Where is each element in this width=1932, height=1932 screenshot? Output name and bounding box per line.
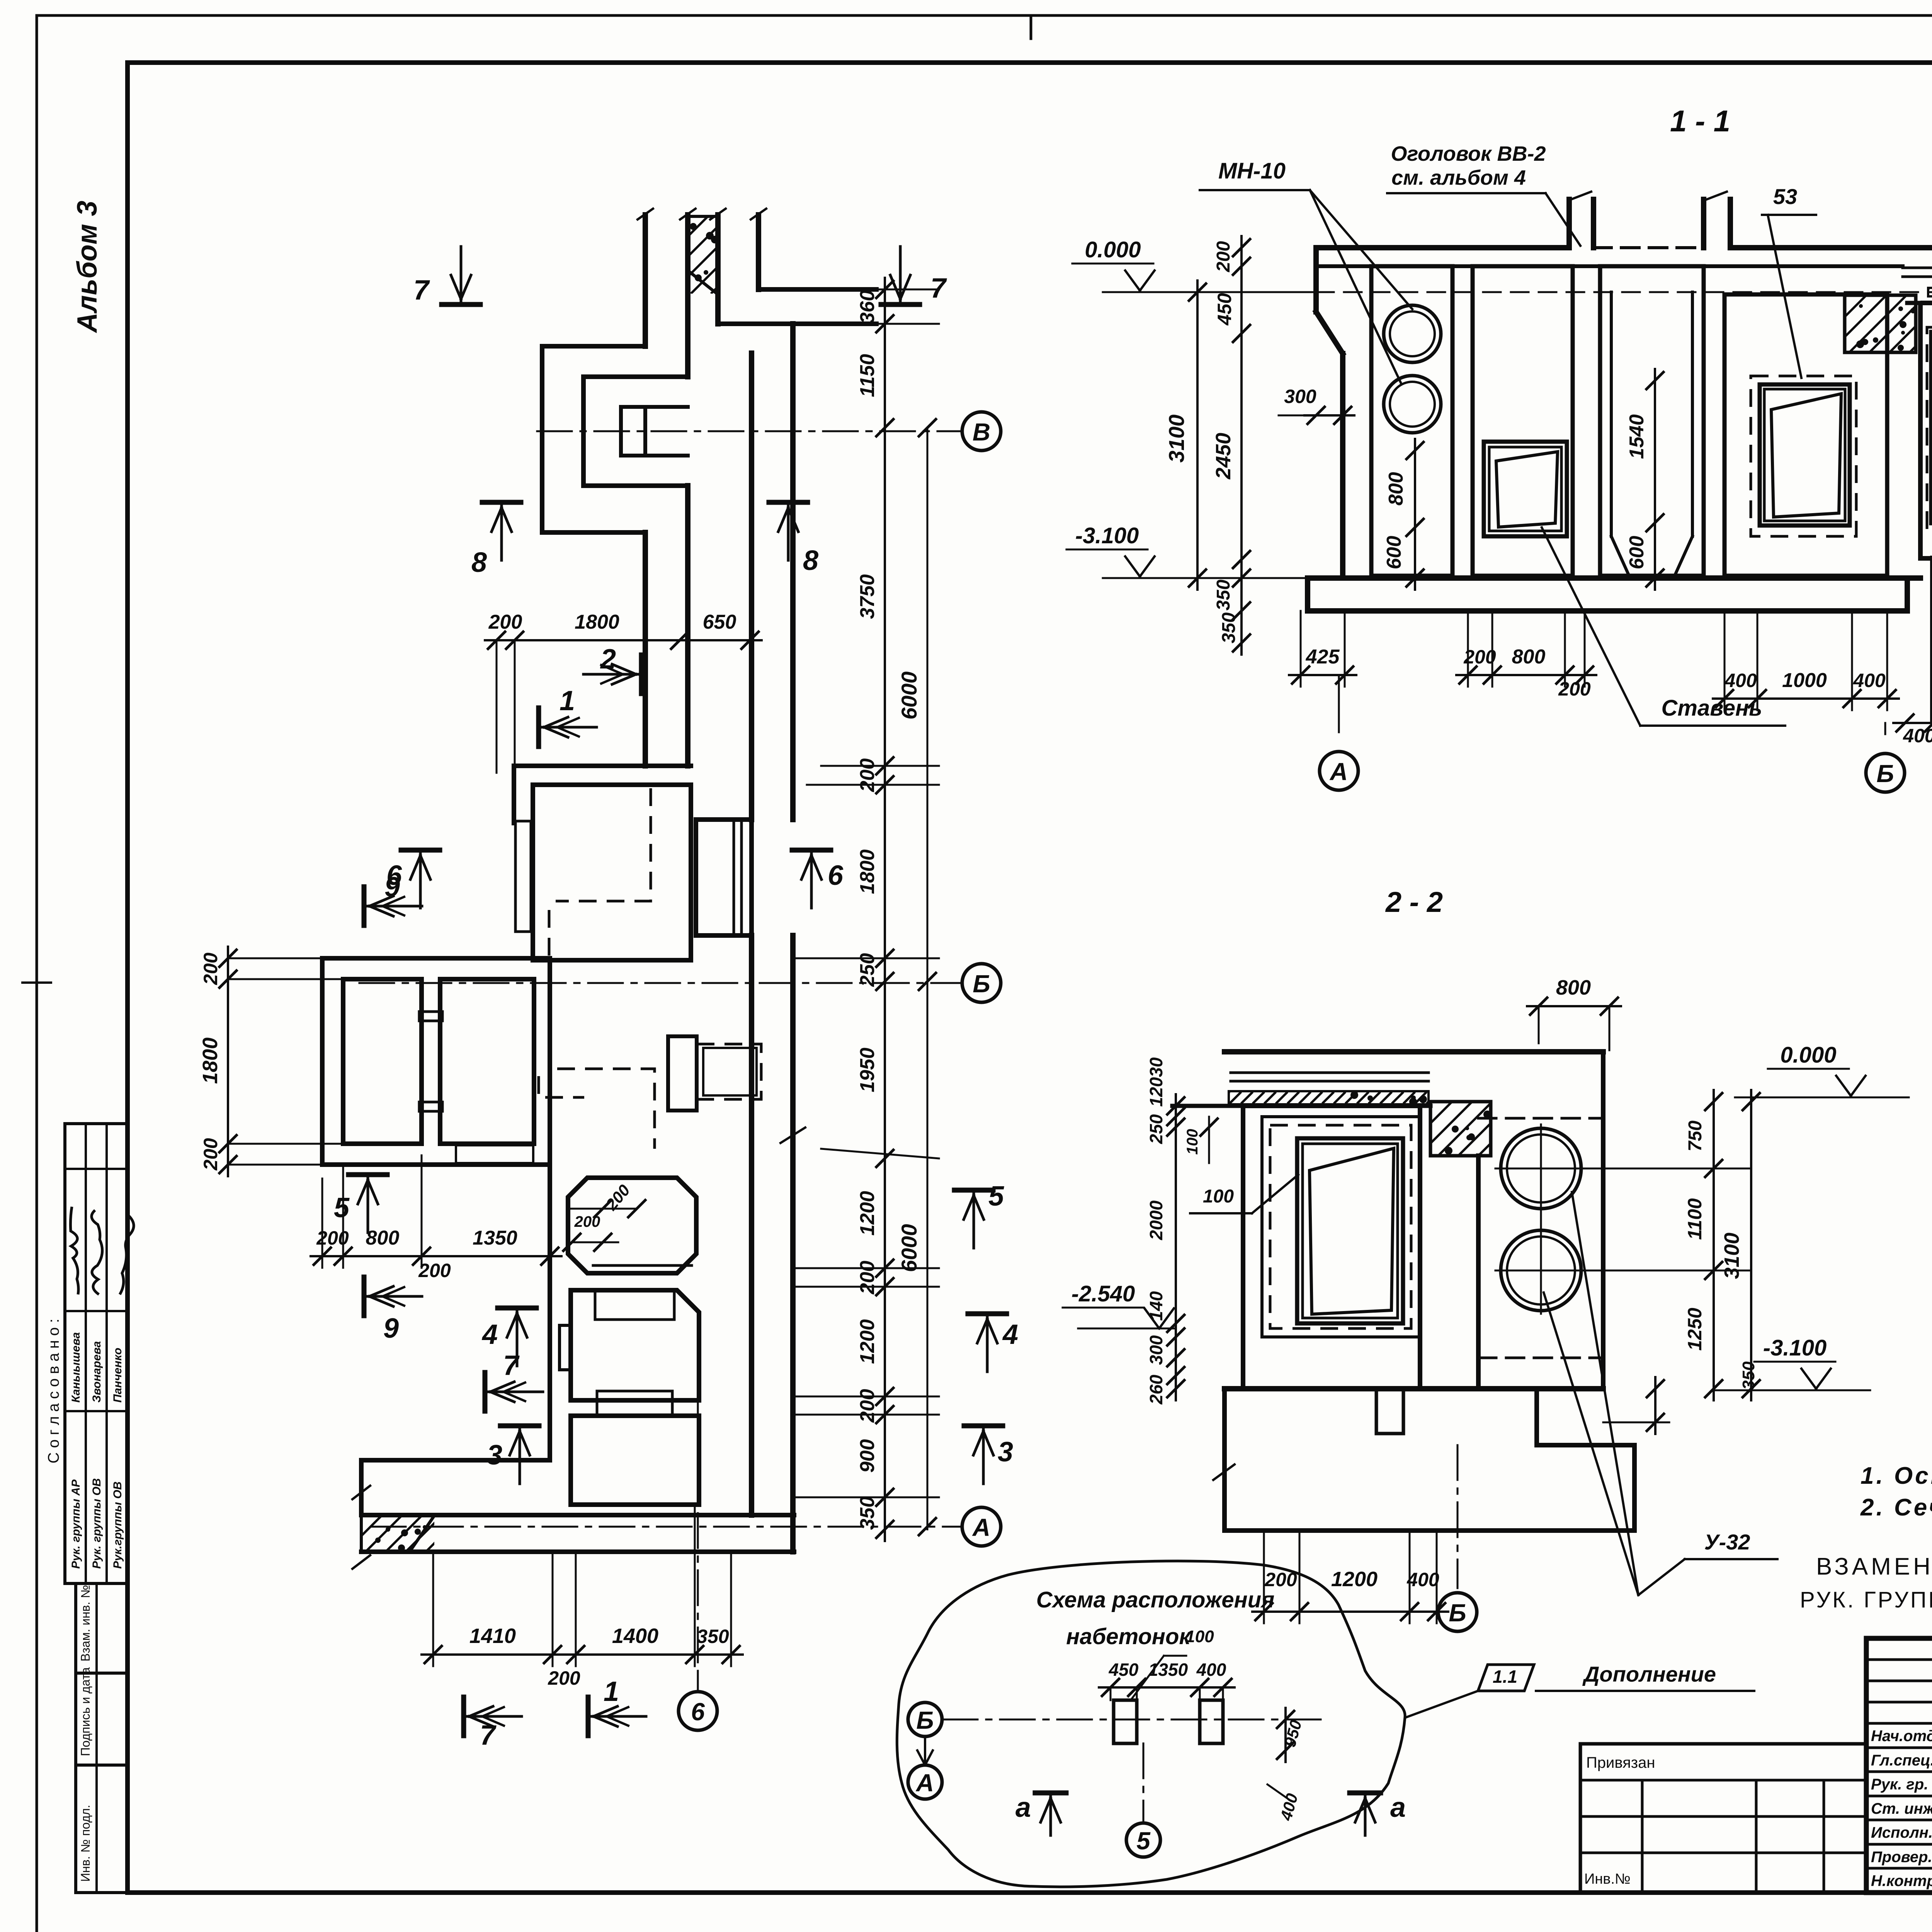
svg-text:3: 3: [998, 1437, 1013, 1468]
svg-text:800: 800: [1556, 976, 1591, 999]
fold mark left edge: [22, 981, 51, 984]
plan left vertical dims 200-1800-200: [227, 947, 229, 1176]
svg-text:425: 425: [1306, 646, 1340, 668]
svg-text:2. Сечения 4-4 ÷ 9-9 см. н: 2. Сечения 4-4 ÷ 9-9 см. на КЖ-1 л.19.: [1860, 1494, 1932, 1521]
schema dims 950/400: [1284, 1708, 1287, 1762]
plan: block below octagon: [571, 1290, 699, 1400]
plan dim 200-1800-650 upper: [485, 639, 762, 641]
svg-text:6: 6: [828, 860, 844, 891]
section 2-2 dim 350 bottom right: [1654, 1377, 1656, 1434]
svg-text:Н.контр.: Н.контр.: [1871, 1872, 1932, 1889]
svg-text:Нач.отд.: Нач.отд.: [1871, 1728, 1932, 1745]
svg-text:450: 450: [1214, 293, 1235, 326]
svg-text:5: 5: [988, 1181, 1004, 1212]
svg-text:9: 9: [384, 872, 400, 903]
plan: concrete wedge at footing left end: [361, 1515, 435, 1552]
plan: small pad and dashed box on axis B: [668, 1036, 697, 1111]
pipe sleeve MN-10 lower: [1384, 376, 1441, 433]
svg-text:Привязан: Привязан: [1586, 1754, 1655, 1771]
svg-text:Рук. группы АР: Рук. группы АР: [70, 1479, 82, 1569]
svg-text:1150: 1150: [856, 354, 879, 397]
privyazan table: [1580, 1744, 1866, 1893]
svg-text:0.000: 0.000: [1780, 1043, 1836, 1068]
svg-text:2000: 2000: [1146, 1200, 1166, 1240]
svg-text:9: 9: [383, 1313, 399, 1344]
section 1-1 wall panel P3: [1600, 266, 1704, 576]
vzam inv box: [76, 1583, 128, 1673]
section 1-1 shaft walls up: [1566, 199, 1572, 248]
svg-text:350: 350: [697, 1626, 729, 1647]
axis B line and circle: [359, 982, 961, 984]
svg-text:100: 100: [1203, 1186, 1234, 1207]
svg-text:6000: 6000: [897, 672, 921, 720]
svg-text:1540: 1540: [1626, 414, 1648, 459]
svg-text:400: 400: [1406, 1569, 1439, 1590]
plan: wall from room down to footing: [548, 1165, 552, 1460]
plan: concrete hatch patch in top wall: [688, 216, 718, 294]
svg-text:Ст. инж.: Ст. инж.: [1871, 1800, 1932, 1817]
svg-text:600: 600: [1383, 536, 1405, 570]
blob schema outline: [897, 1561, 1405, 1887]
P3 dims 1540/600: [1654, 369, 1656, 590]
plan right dimension chain: [884, 278, 886, 1541]
svg-text:1. Основные примечания см.: 1. Основные примечания см. на КЖ-1, л.19…: [1861, 1463, 1932, 1489]
section 2-2 right chain 750/1100/1250: [1713, 1090, 1715, 1400]
svg-text:Подпись и дата: Подпись и дата: [78, 1667, 92, 1756]
plan: lower block: [571, 1416, 699, 1505]
svg-text:3100: 3100: [1164, 415, 1189, 463]
section 1-1 top slab: [1316, 245, 1569, 250]
svg-text:1410: 1410: [469, 1624, 516, 1648]
plan: door opening in lower room bottom: [456, 1145, 533, 1163]
svg-text:А: А: [972, 1514, 990, 1541]
svg-text:450: 450: [1109, 1660, 1139, 1680]
svg-text:900: 900: [856, 1439, 879, 1473]
schema a-a cut arrows: [1035, 1791, 1066, 1796]
svg-text:53: 53: [1773, 184, 1797, 209]
plan: middle room top wall: [514, 764, 691, 768]
section 1-1 bottom dims 425 200-800-200: [1289, 674, 1356, 676]
svg-text:200: 200: [200, 1138, 221, 1171]
section 2-2 hatched block: [1430, 1102, 1491, 1156]
plan: left bulge outer outline: [542, 346, 645, 532]
svg-text:400: 400: [1903, 725, 1932, 747]
plan dim 200-800-1350-200 mid: [311, 1255, 561, 1257]
section 1-1 wall panel P2 with shutter window: [1473, 266, 1573, 576]
svg-text:300: 300: [1146, 1335, 1166, 1365]
svg-text:1 - 1: 1 - 1: [1670, 104, 1730, 138]
plan: notch channel at axis V: [621, 405, 688, 409]
plan section arrows: [442, 302, 480, 307]
svg-text:3750: 3750: [856, 574, 879, 619]
svg-text:1: 1: [560, 685, 575, 716]
plan: door rect left of block: [560, 1325, 571, 1370]
svg-text:С о г л а с о в а н о :: С о г л а с о в а н о :: [45, 1319, 62, 1464]
svg-text:200: 200: [856, 759, 879, 793]
svg-text:350: 350: [1219, 612, 1239, 643]
plan: dashed pit outline in middle room: [556, 788, 651, 901]
svg-text:8: 8: [471, 547, 487, 578]
section 1-1 dim 300 under chamfer: [1304, 414, 1354, 417]
svg-text:30: 30: [1146, 1057, 1166, 1077]
svg-text:Рук. гр.: Рук. гр.: [1871, 1776, 1928, 1793]
plan: top-right step lines with 360 offset: [759, 287, 876, 292]
plan: middle room outline: [533, 785, 691, 960]
svg-text:1400: 1400: [612, 1624, 658, 1648]
section 1-1 bottom dims 400-1000-400: [1713, 697, 1899, 700]
svg-text:а: а: [1390, 1792, 1406, 1823]
podpis i data box: [76, 1673, 128, 1765]
svg-text:1800: 1800: [856, 849, 879, 894]
svg-text:Звонарева: Звонарева: [90, 1341, 103, 1403]
svg-text:2 - 2: 2 - 2: [1385, 886, 1443, 918]
svg-text:Оголовок ВВ-2: Оголовок ВВ-2: [1391, 142, 1546, 165]
svg-text:3: 3: [487, 1440, 502, 1471]
svg-text:1350: 1350: [473, 1227, 517, 1249]
svg-text:200: 200: [856, 1261, 879, 1295]
svg-text:250: 250: [1146, 1114, 1166, 1144]
svg-text:1000: 1000: [1782, 669, 1827, 692]
plan: spine walls below bulge: [643, 532, 648, 766]
plan: octagon chamber 2: [568, 1178, 696, 1273]
svg-text:3100: 3100: [1720, 1233, 1743, 1279]
plan: right channel between spine and wall: [694, 820, 698, 935]
section 1-1 datum dashed line: [1316, 291, 1932, 293]
svg-text:120: 120: [1146, 1077, 1166, 1107]
svg-text:Исполн.: Исполн.: [1871, 1824, 1932, 1841]
plan: lower-left big room outer: [322, 958, 550, 1165]
section 2-2 footing outline: [1225, 1389, 1634, 1531]
svg-text:Панченко: Панченко: [111, 1348, 124, 1403]
svg-text:8: 8: [803, 545, 818, 576]
svg-text:200: 200: [488, 611, 522, 633]
section 1-1 left wall with chamfer: [1313, 248, 1319, 312]
inv no podl box: [76, 1765, 128, 1893]
svg-text:7: 7: [930, 273, 947, 304]
svg-text:7: 7: [480, 1720, 497, 1751]
section 2-2 bottom dims 200-1200-400: [1252, 1611, 1448, 1613]
approval stamp table: [65, 1124, 128, 1583]
svg-text:Б: Б: [1449, 1599, 1466, 1627]
svg-text:набетонок: набетонок: [1066, 1624, 1191, 1649]
svg-text:650: 650: [703, 611, 736, 633]
plan: centerline to axis 6 circle: [697, 1399, 699, 1673]
axis B under section 2-2: [1457, 1445, 1459, 1588]
svg-text:МН-10: МН-10: [1218, 158, 1286, 184]
section 2-2 pipe circles: [1501, 1128, 1581, 1209]
section 1-1 left chain 200/450/2450/350/350: [1240, 236, 1243, 655]
svg-text:1250: 1250: [1684, 1308, 1706, 1350]
svg-text:Б: Б: [916, 1706, 934, 1734]
svg-text:200: 200: [1213, 241, 1234, 272]
svg-text:2: 2: [600, 644, 616, 675]
svg-text:Дополнение: Дополнение: [1582, 1662, 1716, 1686]
section 1-1 right roof sandwich: [1903, 267, 1932, 269]
svg-text:1800: 1800: [199, 1037, 222, 1084]
section 2-2 left chain: [1175, 1094, 1177, 1400]
plan: top wall verticals with break marks: [643, 215, 648, 346]
svg-text:-3.100: -3.100: [1075, 523, 1139, 548]
svg-text:Каныышева: Каныышева: [70, 1332, 82, 1403]
axis A line and circle: [371, 1526, 961, 1528]
section 1-1 floor and base slab: [1308, 575, 1920, 581]
section 1-1 bottom dims 400-1200-200: [1893, 722, 1932, 724]
svg-text:1: 1: [604, 1676, 619, 1707]
concrete hatch patch at panel P4 top: [1845, 295, 1916, 352]
svg-text:260: 260: [1146, 1374, 1166, 1405]
section 2-2 top slab lines: [1225, 1049, 1603, 1054]
svg-text:Рук.группы ОВ: Рук.группы ОВ: [111, 1481, 124, 1569]
svg-text:а: а: [1015, 1792, 1031, 1823]
svg-text:Схема расположения: Схема расположения: [1036, 1587, 1275, 1612]
svg-text:А: А: [1329, 758, 1348, 786]
outer sheet border: [37, 14, 1932, 17]
svg-text:1200: 1200: [856, 1319, 879, 1364]
svg-text:0.000: 0.000: [1085, 237, 1141, 262]
svg-text:Взам. инв. №: Взам. инв. №: [78, 1585, 92, 1662]
svg-text:1.1: 1.1: [1493, 1667, 1517, 1687]
plan horizontal extension lines to chains: [759, 289, 939, 291]
svg-text:Рук. группы ОВ: Рук. группы ОВ: [90, 1478, 103, 1569]
svg-text:200: 200: [1558, 678, 1591, 700]
svg-text:-2.540: -2.540: [1071, 1281, 1135, 1306]
svg-text:800: 800: [366, 1227, 400, 1249]
svg-text:Альбом 3: Альбом 3: [72, 201, 103, 333]
svg-text:ВЗАМЕН ЛИСТА КЖ-18: ВЗАМЕН ЛИСТА КЖ-18: [1816, 1553, 1932, 1580]
section 1-1 right window block: [1920, 303, 1932, 558]
section 2-2 right chamber walls: [1476, 1156, 1481, 1389]
svg-text:4: 4: [1002, 1319, 1018, 1350]
svg-text:7: 7: [503, 1350, 520, 1381]
plan: break marks bottom-left: [352, 1486, 370, 1499]
callout 1.1 Dopolnenie: [1478, 1665, 1534, 1691]
section 1-1 wall panel P1 with pipe holes: [1371, 266, 1452, 576]
svg-text:1200: 1200: [856, 1191, 879, 1236]
P1 dims 800/600: [1414, 439, 1416, 590]
svg-text:800: 800: [1385, 472, 1407, 506]
schema dims 450-1350-400: [1099, 1686, 1235, 1689]
plan: break mark on right wall: [781, 1128, 805, 1143]
plan: lower-left room inner cells: [343, 979, 422, 1144]
svg-text:Гл.спец.: Гл.спец.: [1871, 1752, 1932, 1769]
svg-text:600: 600: [1626, 536, 1648, 570]
axis B under section 1-1: [1884, 723, 1886, 734]
plan: left bulge inner outline: [583, 377, 688, 486]
svg-text:У-32: У-32: [1704, 1530, 1750, 1554]
svg-text:350: 350: [1213, 580, 1234, 611]
svg-text:200: 200: [200, 952, 221, 985]
svg-text:100: 100: [1184, 1129, 1201, 1155]
section 1-1 left dim 3100: [1196, 281, 1199, 590]
svg-text:-3.100: -3.100: [1763, 1335, 1827, 1361]
section 1-1 slab bottom edge: [1316, 264, 1903, 268]
schema pads: [1114, 1700, 1137, 1743]
schema axis 5 circle: [1143, 1743, 1145, 1821]
svg-text:1950: 1950: [856, 1048, 879, 1092]
svg-text:Инв. № подл.: Инв. № подл.: [78, 1805, 92, 1882]
svg-text:1800: 1800: [575, 611, 619, 633]
svg-text:5: 5: [1136, 1827, 1151, 1855]
section 1-1 wall panel P4 with window 53: [1725, 294, 1887, 576]
svg-text:6000: 6000: [897, 1224, 921, 1272]
axis A under section 1-1: [1338, 675, 1340, 732]
section 1-1 pillar under right block: [1930, 558, 1932, 721]
svg-text:400: 400: [1196, 1660, 1226, 1680]
svg-text:см. альбом 4: см. альбом 4: [1391, 166, 1526, 189]
plan 6000 dimension lines: [927, 428, 929, 1529]
svg-text:400: 400: [1853, 670, 1886, 691]
plan: right wall verticals: [749, 353, 754, 820]
svg-text:4: 4: [481, 1319, 498, 1350]
section 2-2 dim 800 top: [1527, 1005, 1621, 1007]
axis V line and circle: [537, 430, 961, 432]
svg-text:350: 350: [1739, 1361, 1758, 1390]
svg-text:А: А: [915, 1769, 934, 1797]
svg-text:7: 7: [413, 275, 430, 306]
svg-text:750: 750: [1685, 1121, 1706, 1151]
svg-text:360: 360: [856, 290, 879, 324]
svg-text:Ставень: Ставень: [1661, 696, 1762, 721]
svg-text:6: 6: [691, 1698, 705, 1726]
svg-text:Провер.: Провер.: [1871, 1849, 1932, 1866]
svg-text:200: 200: [548, 1667, 580, 1689]
svg-text:1100: 1100: [1684, 1198, 1706, 1240]
plan: bottom footing walls: [361, 1458, 550, 1463]
section 2-2 left wall and window box: [1243, 1106, 1420, 1389]
svg-text:200: 200: [856, 1389, 879, 1423]
svg-text:200: 200: [418, 1260, 451, 1281]
plan: middle room door leaf left: [515, 821, 531, 932]
svg-text:Б: Б: [973, 970, 990, 998]
pipe sleeve MN-10 upper: [1384, 305, 1441, 362]
svg-text:300: 300: [1284, 386, 1316, 407]
plan bottom dim chain 1410-200-1400-350: [422, 1653, 743, 1656]
svg-text:1200: 1200: [1331, 1568, 1378, 1591]
svg-text:800: 800: [1512, 646, 1546, 668]
svg-text:100: 100: [1185, 1627, 1214, 1646]
top margin strip divider tick: [1030, 15, 1032, 39]
schema axis line B-A: [943, 1719, 1325, 1721]
title block outer: [1866, 1638, 1932, 1893]
svg-text:5: 5: [334, 1192, 350, 1223]
section 2-2 floor line: [1225, 1386, 1603, 1391]
svg-text:2450: 2450: [1212, 433, 1235, 480]
plan: partition door leaf: [419, 1012, 442, 1021]
svg-text:Б: Б: [1876, 760, 1894, 787]
section 2-2 dim 3100: [1750, 1090, 1752, 1400]
svg-text:В: В: [973, 418, 990, 446]
svg-text:Инв.№: Инв.№: [1584, 1871, 1631, 1887]
svg-text:350: 350: [856, 1497, 879, 1530]
svg-text:400: 400: [1724, 670, 1757, 691]
svg-text:РУК. ГРУППЫ: РУК. ГРУППЫ: [1800, 1587, 1932, 1612]
